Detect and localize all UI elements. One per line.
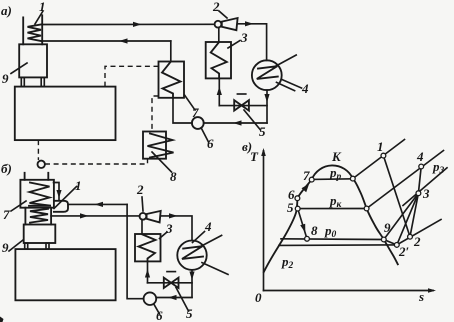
leader to exchanger 8 bbox=[152, 152, 172, 172]
svg-text:pк: pк bbox=[329, 193, 343, 210]
isobar p_2 superheat through point 2 bbox=[397, 220, 441, 245]
wire: evaporator 4b down bbox=[191, 270, 193, 297]
point 8 bbox=[305, 236, 310, 241]
evaporator 4b circle bbox=[177, 241, 206, 270]
wire: ejector outlet b bbox=[161, 216, 192, 240]
arrow on steam line b bbox=[80, 213, 89, 218]
vessel 9 left leg bbox=[21, 77, 24, 86]
wire: return line to coil bbox=[42, 40, 171, 42]
svg-text:4: 4 bbox=[301, 81, 309, 96]
evaporator 4 zigzag bbox=[257, 66, 278, 79]
isobar p_2 bbox=[279, 244, 397, 247]
saturation dome bbox=[264, 165, 398, 272]
point 7 bbox=[309, 177, 314, 182]
svg-text:9: 9 bbox=[384, 220, 391, 235]
junction circle bbox=[38, 161, 45, 168]
wire: pump 6b suction bbox=[156, 297, 192, 299]
arrow on dome 6-7 bbox=[302, 184, 310, 193]
arrow on evaporator outlet bbox=[264, 94, 269, 103]
wire: gen return line b bbox=[68, 203, 127, 205]
point 2' ts bbox=[394, 243, 399, 248]
evaporator 4b upper blade bbox=[198, 235, 221, 247]
arrow on ejector outlet b bbox=[169, 213, 178, 218]
svg-text:1: 1 bbox=[377, 139, 384, 154]
boiler coil 1b bbox=[30, 209, 48, 223]
wire: evaporator down bbox=[266, 90, 268, 123]
leader to condenser 3 bbox=[228, 41, 240, 49]
leader to vessel 9 bbox=[11, 63, 27, 74]
wire: ejector to condenser bbox=[218, 28, 220, 42]
vessel 9b left leg bbox=[25, 243, 28, 249]
consumer tank b bbox=[15, 249, 115, 300]
leader to coil 1b bbox=[54, 187, 77, 209]
dashed link tank to exchanger 7 bbox=[105, 66, 159, 86]
ejector 2b diffuser bbox=[147, 211, 161, 223]
svg-text:4: 4 bbox=[416, 149, 424, 164]
evaporator 4 upper blade bbox=[273, 55, 296, 67]
process line 9-3 bbox=[384, 193, 419, 239]
point 2 ts bbox=[408, 234, 413, 239]
point pk end bbox=[364, 206, 369, 211]
svg-text:7: 7 bbox=[3, 207, 10, 222]
arrow into drum bbox=[56, 190, 61, 198]
point 4 ts bbox=[419, 164, 424, 169]
steam drum tab bbox=[54, 201, 68, 212]
generator coil 1 left pipe bbox=[22, 17, 24, 44]
throttle valve 5b bbox=[164, 278, 179, 288]
process line 5-8 bbox=[298, 209, 307, 239]
condenser 3 coil bbox=[211, 42, 227, 78]
svg-text:6: 6 bbox=[207, 136, 214, 151]
isobar p_K bbox=[298, 208, 367, 210]
svg-text:3: 3 bbox=[240, 30, 248, 45]
condenser 3b coil bbox=[139, 235, 156, 262]
svg-text:K: K bbox=[331, 149, 342, 164]
svg-text:1: 1 bbox=[75, 178, 82, 193]
svg-text:p3: p3 bbox=[432, 159, 445, 176]
vessel 9 right leg bbox=[41, 77, 44, 86]
point 5 bbox=[295, 206, 300, 211]
throttle valve 5 bbox=[234, 100, 249, 110]
boiler pipes left bbox=[24, 208, 26, 225]
svg-text:2: 2 bbox=[136, 182, 144, 197]
svg-text:б): б) bbox=[1, 161, 12, 176]
svg-text:2′: 2′ bbox=[398, 244, 410, 259]
vessel 9b right leg bbox=[46, 243, 49, 249]
axis T arrowhead bbox=[261, 148, 266, 156]
point 3 ts bbox=[416, 191, 421, 196]
axis T bbox=[263, 151, 265, 291]
leader to pump 6b bbox=[154, 304, 160, 314]
svg-text:а): а) bbox=[1, 3, 12, 18]
condenser 3 bbox=[206, 42, 231, 78]
arrow toward pump bbox=[233, 120, 242, 125]
svg-text:2: 2 bbox=[413, 234, 421, 249]
isobar p_3 through point 3 bbox=[403, 168, 447, 206]
leader to valve 5 bbox=[244, 110, 261, 130]
generator box b bbox=[20, 180, 54, 208]
leader to ejector 2 bbox=[219, 11, 227, 18]
pump 6b bbox=[144, 292, 157, 305]
leader to coil 1 bbox=[35, 11, 43, 24]
svg-text:p2: p2 bbox=[281, 254, 294, 271]
vessel 9b bbox=[24, 225, 56, 244]
boiler pipes right bbox=[50, 208, 52, 225]
heat exchanger 8 bbox=[143, 132, 166, 159]
arrow toward pump 6b bbox=[168, 295, 177, 300]
consumer tank a bbox=[15, 87, 116, 141]
generator box left stub bbox=[24, 173, 26, 180]
wire: condenser riser bbox=[218, 78, 220, 105]
leader to vessel 9b bbox=[9, 240, 23, 251]
process line 2-3 bbox=[410, 193, 418, 237]
arrow toward generator bbox=[95, 202, 104, 207]
svg-text:5: 5 bbox=[259, 124, 266, 139]
point pp end bbox=[350, 176, 355, 181]
svg-text:5: 5 bbox=[287, 200, 294, 215]
wire: exchanger 7 top pipe bbox=[170, 41, 172, 62]
arrow up into condenser 3b bbox=[145, 269, 150, 278]
generator coil 7b bbox=[30, 183, 51, 206]
process line 1-2 bbox=[383, 156, 410, 237]
valve 5 stem bbox=[237, 93, 245, 95]
ejector 2 diffuser bbox=[222, 18, 238, 30]
isobar p_0 bbox=[281, 238, 384, 241]
svg-text:T: T bbox=[250, 149, 259, 164]
evaporator 4b zigzag bbox=[182, 246, 203, 259]
svg-text:3: 3 bbox=[422, 186, 430, 201]
svg-text:8: 8 bbox=[311, 223, 318, 238]
isobar p_p superheat through point 1 bbox=[353, 140, 405, 179]
wire: ejector to condenser b bbox=[141, 220, 143, 234]
vessel 9 bbox=[19, 44, 47, 77]
heat exchanger 8 coil bbox=[148, 134, 174, 158]
wire: pump 6b to generator bbox=[127, 204, 144, 298]
process line 2'-3 bbox=[397, 193, 419, 245]
wire: exchanger 7 to pump bbox=[173, 98, 192, 123]
wire: steam line to ejector b bbox=[51, 215, 140, 217]
svg-text:p0: p0 bbox=[324, 223, 337, 240]
ejector 2b nozzle circle bbox=[140, 213, 147, 220]
isobar p_p bbox=[312, 178, 353, 181]
arrow up into condenser bbox=[217, 87, 222, 96]
leader to exchanger 7 bbox=[185, 95, 196, 110]
leader to condenser 3b bbox=[160, 232, 168, 239]
condenser 3b bbox=[135, 234, 161, 261]
evaporator 4b lower blade bbox=[202, 263, 228, 275]
dashed link junction to exchanger 8 bbox=[45, 159, 148, 164]
arrow on return line bbox=[119, 38, 128, 43]
leader to evaporator 4 bbox=[282, 80, 302, 89]
leader to ejector 2b bbox=[142, 197, 143, 211]
arrow on line 5-8 bbox=[300, 224, 305, 233]
heat exchanger 7 coil bbox=[162, 62, 181, 98]
process line 4-3 bbox=[418, 167, 421, 194]
point 9 ts bbox=[381, 237, 386, 242]
point 6 bbox=[295, 196, 300, 201]
generator box right stub bbox=[47, 173, 49, 180]
leader to coil 7b bbox=[11, 201, 26, 211]
drum feed pipe bbox=[54, 183, 60, 200]
svg-text:7: 7 bbox=[303, 168, 310, 183]
axis s arrowhead bbox=[428, 288, 436, 293]
pump 6 bbox=[192, 117, 204, 129]
scan smudge corner bbox=[0, 317, 4, 322]
wire: steam line to ejector bbox=[42, 23, 214, 25]
dashed link tank a down bbox=[37, 140, 39, 160]
evaporator 4 circle bbox=[252, 60, 282, 90]
dashed link exchanger 7 to 8 bbox=[152, 96, 159, 131]
heat exchanger 7 bbox=[159, 62, 185, 98]
arrow on ejector outlet bbox=[245, 21, 254, 26]
generator water line bbox=[29, 205, 50, 207]
leader to pump 6 bbox=[202, 129, 209, 143]
axis s bbox=[264, 290, 434, 292]
process line 9-2' bbox=[384, 240, 397, 245]
svg-text:s: s bbox=[418, 289, 424, 304]
arrow on evaporator 4b outlet bbox=[189, 272, 194, 281]
generator coil 1 right pipe bbox=[41, 15, 43, 44]
valve 5b stem bbox=[167, 271, 175, 273]
leader to evaporator 4b bbox=[193, 232, 205, 243]
wire: pump suction line bbox=[204, 122, 267, 124]
ejector 2 nozzle circle bbox=[215, 21, 222, 28]
point 1 ts bbox=[381, 153, 386, 158]
arrow on steam line bbox=[133, 22, 142, 27]
wire: valve line bbox=[219, 105, 267, 107]
svg-text:9: 9 bbox=[2, 71, 9, 86]
leader to valve 5b bbox=[176, 288, 189, 312]
isobar p_K superheat through point 4 bbox=[367, 151, 444, 209]
svg-text:9: 9 bbox=[2, 240, 9, 255]
generator coil 1 zigzag bbox=[28, 25, 42, 42]
svg-text:0: 0 bbox=[255, 290, 262, 305]
wire: condenser 3b riser bbox=[147, 261, 149, 282]
wire: ejector outlet bbox=[238, 24, 267, 61]
evaporator 4 lower blade bbox=[277, 82, 295, 90]
wire: valve 5b line bbox=[148, 282, 193, 284]
